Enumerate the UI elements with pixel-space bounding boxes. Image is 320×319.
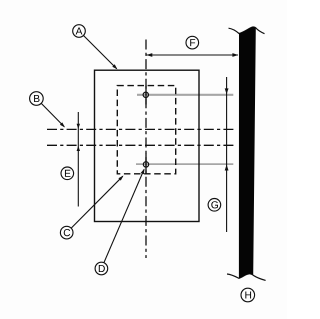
- centerline segment through bottom hole: [145, 154, 147, 175]
- leader B: [41, 103, 64, 127]
- vertical centerline: [145, 40, 147, 259]
- label G: [208, 199, 221, 212]
- label H: [241, 288, 255, 302]
- top hole level line (gray): [137, 94, 233, 96]
- centerline segment through top hole: [145, 86, 147, 105]
- leader D: [104, 169, 144, 262]
- leader A: [84, 36, 117, 69]
- top screw hole: [143, 92, 148, 97]
- leader C: [71, 176, 123, 228]
- label D: [95, 262, 108, 275]
- label E: [61, 167, 74, 180]
- indoor unit outline: [95, 70, 200, 221]
- label C: [60, 226, 73, 239]
- unit horizontal centerline: [47, 144, 234, 146]
- plate horizontal centerline: [47, 128, 234, 130]
- B/E dimension line: [77, 112, 79, 207]
- F dimension line: [147, 54, 239, 56]
- label F: [186, 36, 199, 49]
- G dimension line: [226, 77, 228, 232]
- bottom screw hole: [143, 162, 148, 167]
- label B: [30, 92, 44, 106]
- wall (broken section): [229, 27, 265, 34]
- label A: [73, 25, 86, 38]
- bottom hole level line (gray): [136, 163, 233, 165]
- mounting plate (dashed): [117, 86, 175, 174]
